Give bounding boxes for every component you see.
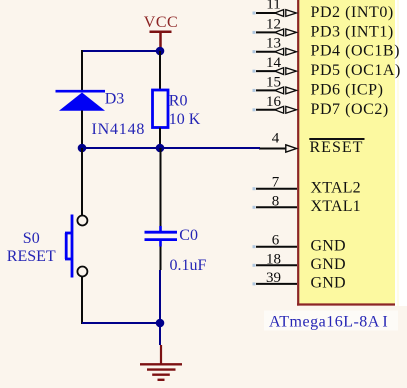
pin 6 (GND) (253, 233, 298, 249)
pin 7 (XTAL2) (253, 175, 298, 191)
svg-text:IN4148: IN4148 (92, 121, 146, 138)
pin 11 (PD2) (253, 0, 297, 16)
svg-text:RESET: RESET (7, 248, 56, 265)
junction diode/mid rail (78, 144, 87, 153)
pin 14 (PD5) (253, 55, 297, 74)
svg-text:GND: GND (311, 237, 346, 254)
svg-text:PD5 (OC1A): PD5 (OC1A) (311, 62, 401, 79)
diode D3 (56, 91, 106, 111)
svg-text:PD3 (INT1): PD3 (INT1) (311, 23, 394, 40)
pin 8 (XTAL1) (253, 193, 298, 209)
wire: capacitor down to ground junction (159, 270, 161, 323)
ground symbol (140, 345, 182, 380)
svg-text:7: 7 (272, 175, 280, 191)
svg-text:R0: R0 (169, 93, 188, 110)
svg-text:8: 8 (272, 193, 280, 209)
svg-text:0.1uF: 0.1uF (170, 257, 207, 274)
svg-text:PD2 (INT0): PD2 (INT0) (311, 4, 394, 21)
junction resistor/mid rail (156, 144, 165, 153)
svg-text:RESET: RESET (310, 139, 364, 156)
svg-text:16: 16 (266, 94, 282, 110)
svg-text:PD7 (OC2): PD7 (OC2) (311, 101, 389, 118)
pin 39 (GND) (253, 270, 298, 286)
part name ATmega16L-8AI (264, 311, 398, 331)
svg-text:4: 4 (272, 131, 280, 147)
svg-text:XTAL1: XTAL1 (311, 198, 361, 215)
wire: bottom horizontal rail (82, 322, 160, 324)
switch S0 (push button) (65, 215, 87, 278)
pin 12 (PD3) (253, 16, 297, 35)
svg-text:VCC: VCC (144, 14, 178, 31)
svg-text:PD6 (ICP): PD6 (ICP) (311, 81, 384, 98)
svg-text:12: 12 (266, 16, 281, 32)
pin label RESET with overline (309, 139, 364, 156)
svg-text:XTAL2: XTAL2 (311, 179, 361, 196)
svg-text:ATmega16L-8AI: ATmega16L-8AI (269, 314, 388, 331)
wire: junction down to ground symbol (159, 323, 161, 345)
junction at VCC rail / resistor top (156, 47, 165, 56)
wire: middle horizontal rail to pin 4 (82, 147, 260, 149)
wire: diode anode down to mid rail (81, 111, 83, 149)
wire: top horizontal VCC rail (82, 50, 160, 52)
pin 18 (GND) (253, 251, 298, 267)
pin 15 (PD6) (253, 74, 297, 93)
wire: switch bottom to bottom rail (81, 277, 83, 325)
VCC power symbol (144, 14, 178, 51)
capacitor C0 (145, 148, 178, 270)
svg-text:13: 13 (266, 36, 281, 52)
wire: left branch vertical, VCC rail to diode cathode (81, 50, 83, 90)
junction ground node (156, 319, 165, 328)
svg-text:GND: GND (311, 256, 346, 273)
svg-text:6: 6 (272, 233, 280, 249)
svg-text:D3: D3 (105, 91, 125, 108)
svg-text:GND: GND (311, 275, 346, 292)
pin 4 (RESET input) (259, 131, 297, 153)
svg-text:39: 39 (266, 270, 281, 286)
svg-text:15: 15 (266, 74, 281, 90)
wire: mid rail down to switch (81, 148, 83, 216)
IC U1 body ATmega16L-8AI (297, 0, 399, 306)
svg-text:11: 11 (266, 0, 280, 12)
resistor R0 (153, 51, 169, 148)
svg-text:PD4 (OC1B): PD4 (OC1B) (311, 43, 401, 60)
svg-text:14: 14 (266, 55, 282, 71)
pin 13 (PD4) (253, 36, 297, 55)
svg-text:18: 18 (266, 251, 281, 267)
pin 16 (PD7) (253, 94, 297, 113)
svg-text:10 K: 10 K (169, 111, 201, 128)
svg-text:S0: S0 (23, 230, 40, 247)
svg-text:C0: C0 (179, 227, 198, 244)
